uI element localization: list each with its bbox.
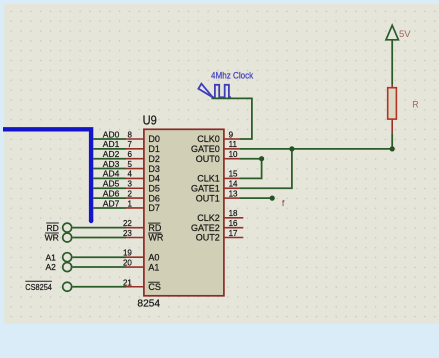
wire AD4 xyxy=(93,177,126,179)
terminal RD (input, active low) xyxy=(46,223,71,233)
wire GATE0 (pin 11) to resistor node xyxy=(239,148,392,150)
IC U1 left pin stubs D0-D7, RD, WR, A0, A1, CS xyxy=(126,139,144,287)
svg-text:4: 4 xyxy=(127,170,132,179)
svg-text:CLK2: CLK2 xyxy=(197,213,220,223)
svg-text:RD: RD xyxy=(148,223,161,233)
svg-text:OUT1: OUT1 xyxy=(196,193,220,203)
junction at OUT1 end xyxy=(270,196,275,201)
svg-text:GATE2: GATE2 xyxy=(191,223,220,233)
svg-text:8: 8 xyxy=(127,130,132,139)
wire AD0 xyxy=(93,138,126,140)
svg-text:GATE0: GATE0 xyxy=(191,144,220,154)
wire AD3 xyxy=(93,168,126,170)
svg-text:CS: CS xyxy=(148,282,161,292)
svg-text:AD5: AD5 xyxy=(103,179,120,189)
svg-text:D4: D4 xyxy=(148,174,160,184)
IC right pin stubs xyxy=(224,139,243,238)
svg-text:CLK1: CLK1 xyxy=(197,174,220,184)
svg-text:U9: U9 xyxy=(143,112,157,127)
svg-text:AD3: AD3 xyxy=(103,159,120,169)
wire CS8254 to pin 21 xyxy=(73,286,126,288)
svg-text:5V: 5V xyxy=(399,29,411,40)
svg-text:A0: A0 xyxy=(148,252,159,262)
svg-text:CLK0: CLK0 xyxy=(197,134,220,144)
svg-text:A1: A1 xyxy=(45,252,56,262)
svg-text:GATE1: GATE1 xyxy=(191,183,220,193)
wire clock to CLK0 (pin 9) xyxy=(212,98,252,139)
svg-text:A1: A1 xyxy=(148,262,159,272)
wire 5V to resistor xyxy=(391,40,393,85)
svg-text:AD0: AD0 xyxy=(103,129,120,139)
svg-text:10: 10 xyxy=(229,150,238,159)
IC U9 body (8254) xyxy=(144,129,224,295)
wire GATE0 node down to GATE1 (pin 14) xyxy=(239,149,292,188)
svg-text:5: 5 xyxy=(127,160,132,169)
svg-text:AD4: AD4 xyxy=(103,169,120,179)
wire OUT1 (pin 13) stub to node f xyxy=(239,197,272,199)
wire AD1 xyxy=(93,148,126,150)
svg-text:D7: D7 xyxy=(148,203,160,213)
wire A2 to pin 20 xyxy=(73,266,126,268)
power symbol 5V xyxy=(386,25,398,40)
svg-text:D5: D5 xyxy=(148,183,160,193)
svg-text:AD2: AD2 xyxy=(103,149,120,159)
wire resistor to GATE0 net xyxy=(391,133,393,149)
wire OUT0 (pin 10) to CLK1 (pin 15) xyxy=(239,159,261,179)
wire RD to pin 22 xyxy=(73,227,126,229)
svg-text:18: 18 xyxy=(229,209,238,218)
IC pin name CS (active low) xyxy=(148,282,161,292)
wire AD2 xyxy=(93,158,126,160)
svg-text:17: 17 xyxy=(229,229,238,238)
terminal A1 xyxy=(45,252,71,262)
svg-text:AD1: AD1 xyxy=(103,139,120,149)
svg-text:OUT0: OUT0 xyxy=(196,154,220,164)
wire WR to pin 23 xyxy=(73,237,126,239)
svg-text:7: 7 xyxy=(127,140,132,149)
svg-text:R: R xyxy=(412,100,418,110)
svg-text:D6: D6 xyxy=(148,193,160,203)
svg-text:1: 1 xyxy=(127,199,132,208)
svg-text:15: 15 xyxy=(229,170,238,179)
junction at resistor / GATE0 net xyxy=(390,146,395,151)
terminal A2 xyxy=(45,262,71,272)
resistor R pin stubs xyxy=(391,85,393,134)
clock generator symbol (4MHz) xyxy=(198,84,231,98)
svg-text:16: 16 xyxy=(229,219,238,228)
svg-text:AD7: AD7 xyxy=(103,198,120,208)
terminal WR (input, active low) xyxy=(45,233,72,243)
svg-text:2: 2 xyxy=(127,189,132,198)
terminal CS8254 (active low) xyxy=(25,281,71,292)
svg-text:CS8254: CS8254 xyxy=(25,282,52,292)
svg-text:OUT2: OUT2 xyxy=(196,233,220,243)
svg-text:WR: WR xyxy=(148,233,163,243)
svg-text:4Mhz Clock: 4Mhz Clock xyxy=(211,70,253,81)
wire AD6 xyxy=(93,197,126,199)
junction at OUT0 corner xyxy=(259,156,264,161)
svg-text:6: 6 xyxy=(127,150,132,159)
svg-text:WR: WR xyxy=(45,233,59,243)
junction at GATE0/GATE1 tap xyxy=(289,146,294,151)
bus AD[0..7] (blue) xyxy=(3,129,91,221)
svg-text:9: 9 xyxy=(229,130,234,139)
svg-text:D3: D3 xyxy=(148,164,160,174)
resistor R body xyxy=(388,88,397,119)
IC pin name RD (active low) xyxy=(148,223,162,233)
IC pin name WR (active low) xyxy=(148,233,164,243)
svg-text:D0: D0 xyxy=(148,134,160,144)
svg-text:13: 13 xyxy=(229,189,238,198)
svg-text:D2: D2 xyxy=(148,154,160,164)
svg-text:3: 3 xyxy=(127,180,132,189)
svg-text:RD: RD xyxy=(47,223,59,233)
svg-text:A2: A2 xyxy=(45,262,56,272)
svg-text:8254: 8254 xyxy=(137,299,160,310)
wire AD5 xyxy=(93,187,126,189)
svg-text:14: 14 xyxy=(229,180,238,189)
svg-text:AD6: AD6 xyxy=(103,188,120,198)
wire AD7 xyxy=(93,207,126,209)
svg-text:D1: D1 xyxy=(148,144,160,154)
wire A1 to pin 19 xyxy=(73,256,126,258)
svg-text:11: 11 xyxy=(229,140,238,149)
